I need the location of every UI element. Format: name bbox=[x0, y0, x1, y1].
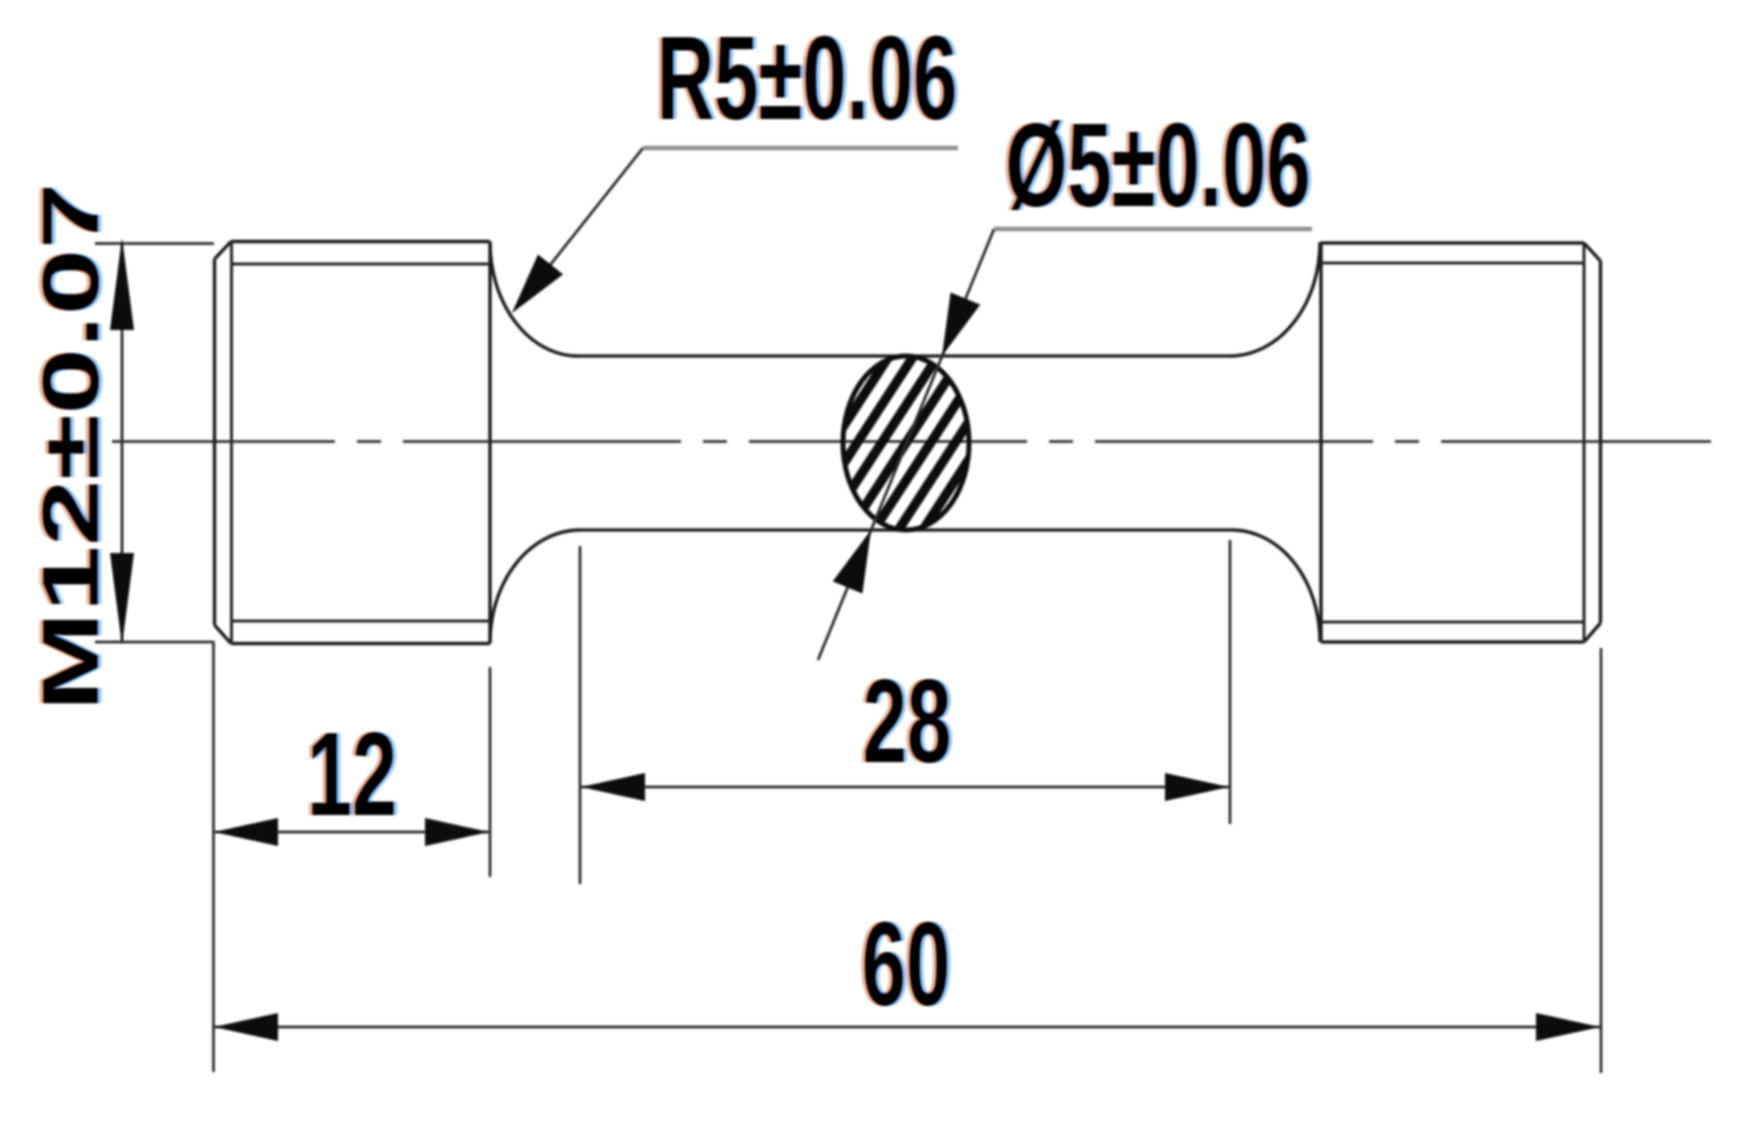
dimension 60 line bbox=[214, 1026, 1600, 1029]
dimension M12 upper arrowhead bbox=[110, 238, 134, 330]
dimension 28 right arrowhead bbox=[1165, 773, 1229, 801]
fillet bottom-left R5 bbox=[490, 530, 580, 643]
leader R5 slanted line bbox=[516, 148, 643, 308]
label 28 bbox=[859, 655, 954, 788]
dimension 60 extension line right bbox=[1600, 648, 1603, 1073]
dimension M12 extension lines bbox=[95, 244, 214, 643]
label Ø5±0.06 bbox=[1002, 99, 1314, 232]
dimension 12 left arrowhead bbox=[214, 818, 278, 846]
leader Ø5 landing line bbox=[994, 227, 1312, 232]
svg-text:R5±0.06: R5±0.06 bbox=[657, 12, 958, 145]
label R5±0.06 bbox=[653, 12, 960, 145]
svg-text:28: 28 bbox=[863, 655, 952, 788]
dimension M12 line bbox=[121, 242, 124, 641]
centerline (horizontal dash-dot axis) bbox=[112, 440, 1711, 443]
svg-text:60: 60 bbox=[862, 898, 951, 1031]
dimension 12 right arrowhead bbox=[425, 818, 489, 846]
label M12±0.07 (rotated) bbox=[23, 183, 119, 711]
label 12 bbox=[304, 707, 401, 840]
fillet bottom-right R5 bbox=[1232, 530, 1320, 642]
leader Ø5 lower arrowhead bbox=[833, 524, 886, 593]
dimension 12 extension line right bbox=[489, 667, 492, 877]
svg-text:M12±0.07: M12±0.07 bbox=[26, 183, 115, 711]
leader Ø5 diameter line through section bbox=[818, 229, 994, 660]
dimension M12 lower arrowhead bbox=[110, 553, 134, 645]
leader R5 arrowhead bbox=[499, 254, 563, 322]
dimension 12 line bbox=[214, 831, 489, 834]
dimension 28 extension line left bbox=[579, 546, 582, 884]
left grip outer profile bbox=[215, 242, 491, 644]
fillet top-right R5 bbox=[1230, 242, 1320, 356]
dimension 60 left arrowhead bbox=[214, 1013, 278, 1041]
svg-text:12: 12 bbox=[307, 707, 397, 840]
svg-text:Ø5±0.06: Ø5±0.06 bbox=[1005, 99, 1310, 232]
section indicator circle (gauge cross-section) bbox=[679, 320, 1133, 566]
gauge section bottom line bbox=[580, 528, 1232, 531]
dimension 28 extension line right bbox=[1229, 540, 1232, 824]
shared extension line left (12 and 60) bbox=[212, 642, 215, 1072]
leader Ø5 upper arrowhead bbox=[927, 293, 980, 362]
dimension 28 left arrowhead bbox=[581, 773, 645, 801]
right grip thread lines bbox=[1321, 243, 1584, 642]
right grip outer profile bbox=[1321, 243, 1601, 642]
dimension 60 right arrowhead bbox=[1536, 1013, 1600, 1041]
dimension 28 line bbox=[581, 786, 1229, 789]
label 60 bbox=[858, 898, 953, 1031]
fillet top-left R5 bbox=[490, 242, 578, 356]
left grip thread lines bbox=[231, 242, 490, 644]
gauge section top line bbox=[578, 354, 1230, 357]
leader R5 landing line bbox=[643, 146, 958, 151]
